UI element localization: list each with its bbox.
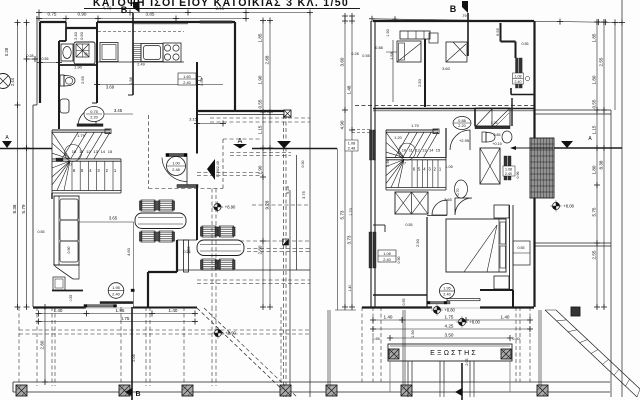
right plan: wardrobe top right — [475, 108, 510, 126]
left plan: flue niche walls — [65, 28, 67, 41]
right plan: pergola verticals below balcony — [407, 382, 409, 397]
left plan: exterior wall top kitchen segment — [97, 21, 235, 23]
left plan: dining table 1 — [135, 213, 186, 229]
svg-text:1.08: 1.08 — [348, 142, 355, 146]
right plan: bedroom2 closet east — [513, 241, 530, 265]
svg-text:9: 9 — [65, 153, 67, 157]
svg-text:2.40: 2.40 — [183, 81, 190, 85]
right plan: balcony side rails down — [389, 361, 391, 392]
svg-text:2.55: 2.55 — [592, 250, 597, 259]
svg-text:4.25: 4.25 — [445, 324, 454, 329]
svg-text:ΕΞΩΣΤΗΣ: ΕΞΩΣΤΗΣ — [430, 350, 478, 357]
left plan: right dim column 2 — [269, 21, 271, 308]
right plan: dashes left of stair — [352, 129, 371, 131]
svg-text:3.85: 3.85 — [146, 12, 155, 17]
left plan: hall west wall upper — [196, 62, 198, 154]
right plan: bedroom1 closet — [400, 31, 430, 39]
right plan: bath toilet — [482, 132, 486, 142]
svg-text:2.40: 2.40 — [443, 293, 450, 297]
svg-text:5.75: 5.75 — [592, 207, 597, 216]
right plan: bath north walls — [510, 88, 512, 95]
right plan: balcony east structures — [534, 109, 611, 111]
left plan: kitchen sink — [141, 44, 163, 62]
svg-text:2.48: 2.48 — [172, 167, 180, 172]
svg-text:0.55: 0.55 — [258, 99, 263, 108]
left plan: staircase — [51, 130, 53, 193]
left plan: entrance arrow — [207, 159, 215, 180]
svg-text:A: A — [238, 138, 243, 145]
right plan: bath west wall — [474, 108, 476, 126]
svg-text:4.70: 4.70 — [103, 6, 112, 11]
left plan: kitchen counter edge — [97, 61, 184, 63]
right plan: bedroom2 walls — [426, 217, 428, 307]
svg-text:4.60: 4.60 — [126, 247, 131, 256]
right plan: south sliding door panel 1 — [447, 299, 480, 301]
right plan: hall west wall step — [373, 224, 385, 226]
right plan: right dim column 2 — [603, 22, 605, 307]
svg-text:3.50: 3.50 — [445, 333, 454, 338]
svg-text:3.45: 3.45 — [114, 108, 123, 113]
left plan: south sliding door panel 1 — [100, 302, 133, 304]
left plan: sofa corner piece — [54, 265, 79, 279]
right plan: bedroom2 double bed — [446, 219, 506, 272]
left plan: dark step at stair mid — [56, 158, 63, 162]
svg-text:1.05: 1.05 — [445, 165, 452, 169]
svg-text:3.73: 3.73 — [347, 235, 352, 244]
svg-text:1.90: 1.90 — [258, 165, 263, 174]
svg-text:B: B — [135, 391, 140, 398]
svg-text:0.55: 0.55 — [402, 299, 406, 306]
svg-text:1.95: 1.95 — [443, 287, 450, 291]
svg-text:9: 9 — [399, 152, 401, 156]
right plan: exterior wall west — [370, 21, 372, 307]
svg-text:4.75: 4.75 — [121, 316, 130, 321]
svg-text:15: 15 — [108, 149, 113, 154]
right plan: section line B vertical top — [467, 13, 469, 56]
right plan: stair arrow — [516, 147, 553, 149]
svg-text:2.50: 2.50 — [417, 78, 422, 87]
right terrace: diagonal stair — [545, 310, 637, 397]
svg-text:1.40: 1.40 — [384, 315, 393, 320]
svg-text:2.90: 2.90 — [415, 238, 420, 247]
svg-text:1.80: 1.80 — [592, 75, 597, 84]
right plan: level mark +8.08 — [552, 202, 559, 209]
svg-text:2.96: 2.96 — [386, 159, 390, 166]
right plan: bedroom1 SE closet walls — [500, 23, 502, 42]
right plan: west window bars — [370, 130, 373, 160]
svg-text:13: 13 — [93, 149, 98, 154]
svg-text:9.28: 9.28 — [265, 200, 270, 209]
svg-text:2.55: 2.55 — [80, 75, 85, 84]
title underline — [84, 8, 360, 10]
svg-text:5.73: 5.73 — [340, 210, 345, 219]
right plan: pergola verticals — [407, 361, 409, 382]
svg-text:B: B — [121, 5, 128, 15]
svg-text:0.85: 0.85 — [494, 133, 501, 137]
right plan: south sliding door panel 2 — [427, 302, 450, 304]
right plan: bedroom1 bed A — [397, 41, 421, 62]
svg-text:1.00: 1.00 — [172, 161, 180, 166]
right plan: bedroom2 label circle — [440, 284, 455, 299]
left plan: living door label circle — [167, 157, 186, 176]
svg-text:Π.20/2.40: Π.20/2.40 — [216, 161, 220, 177]
svg-text:1.15: 1.15 — [592, 125, 597, 134]
svg-text:1.08: 1.08 — [515, 75, 522, 79]
svg-text:12: 12 — [415, 148, 420, 153]
svg-text:+8.08: +8.08 — [563, 204, 574, 209]
left plan: section B line bottom — [131, 307, 133, 400]
svg-text:1.80: 1.80 — [592, 165, 597, 174]
left plan: right dim column 1 — [262, 21, 264, 308]
right terrace: verticals — [327, 310, 329, 385]
svg-text:14: 14 — [429, 148, 434, 153]
right plan: hall south wall — [373, 294, 427, 296]
left plan: bathroom washbasin — [61, 44, 73, 61]
right plan: bedroom2 inner east wall — [509, 205, 511, 290]
svg-text:1.50: 1.50 — [411, 330, 415, 337]
left plan: dining set 1 chairs top — [141, 200, 155, 211]
right plan: outer east line — [621, 0, 623, 397]
right plan: bedroom2 SE wall jog — [480, 289, 513, 291]
left plan: lower west cupboard — [53, 277, 65, 290]
right terrace: top column — [571, 307, 580, 316]
svg-text:0.55: 0.55 — [42, 57, 49, 61]
svg-text:2.55: 2.55 — [216, 6, 225, 11]
right plan: stair east wall upper — [445, 128, 447, 158]
left plan: left dimension line 5.79 — [26, 23, 28, 308]
svg-text:1.90: 1.90 — [258, 75, 263, 84]
svg-text:6.55: 6.55 — [495, 27, 500, 36]
left plan: kitchen wall cabinets dashed — [98, 31, 184, 33]
right terrace: dashed verticals — [361, 307, 363, 382]
left plan: east wall — [234, 22, 236, 112]
svg-text:10: 10 — [402, 148, 407, 153]
svg-text:1.95: 1.95 — [116, 308, 125, 313]
svg-text:0.55: 0.55 — [406, 223, 413, 227]
right plan: east wall — [533, 21, 535, 307]
left plan: top dimension row 1 (4.70 / 2.55) — [39, 12, 310, 14]
svg-text:4.90: 4.90 — [340, 120, 345, 129]
right plan: south wall — [362, 306, 432, 308]
svg-text:2.60: 2.60 — [40, 340, 45, 349]
left plan: pier next to entrance — [184, 240, 189, 272]
svg-text:1.48: 1.48 — [347, 85, 352, 94]
svg-text:.79: .79 — [461, 14, 466, 18]
svg-text:0.30: 0.30 — [301, 161, 305, 168]
left plan: dining table 2 — [197, 240, 244, 256]
svg-text:1.95: 1.95 — [112, 285, 120, 290]
left plan: porch dashed verticals down — [211, 189, 213, 308]
right plan: right dim column 1 — [596, 22, 598, 307]
right plan: balcony outline — [388, 344, 512, 361]
column symbol at left edge — [0, 74, 11, 89]
left plan: window label box — [178, 73, 196, 85]
svg-text:1.90: 1.90 — [74, 65, 83, 70]
right plan: exterior wall top — [373, 20, 534, 22]
svg-text:2.68: 2.68 — [265, 55, 270, 64]
right plan: door arc below stairs — [455, 198, 472, 215]
svg-text:1.58: 1.58 — [389, 51, 394, 60]
left plan: wc toilet — [60, 75, 64, 86]
svg-text:8.38: 8.38 — [12, 204, 17, 213]
left plan: living room label circle — [108, 283, 124, 299]
svg-text:2.40: 2.40 — [515, 80, 522, 84]
svg-text:2.55: 2.55 — [599, 57, 604, 66]
svg-text:B: B — [450, 4, 457, 14]
right plan: bedroom1 east partition line — [392, 40, 394, 102]
svg-text:2.20: 2.20 — [90, 115, 98, 120]
svg-text:1.20: 1.20 — [394, 136, 401, 140]
right plan: balcony dim rows — [373, 319, 530, 321]
svg-text:3.15: 3.15 — [189, 117, 198, 122]
right plan: floor divider dashed — [355, 105, 534, 107]
svg-text:7: 7 — [404, 162, 406, 166]
left plan: kitchen drainboard hatch — [133, 44, 141, 62]
svg-text:1.08: 1.08 — [505, 168, 512, 172]
svg-text:1.75: 1.75 — [445, 315, 454, 320]
right plan: balcony corner columns — [389, 349, 399, 359]
svg-text:0.28: 0.28 — [351, 52, 358, 56]
svg-text:1.70: 1.70 — [349, 208, 353, 215]
right plan: left dim line top ticks — [344, 16, 346, 21]
right terrace: level mark +8.00 — [458, 318, 465, 325]
svg-text:0.55: 0.55 — [38, 230, 45, 234]
right plan: bedroom2 door arc — [432, 200, 447, 215]
left plan: section A-A mid segment — [252, 148, 337, 150]
left plan: living west wall below stairs — [51, 193, 53, 199]
left plan: bath west wall — [58, 41, 60, 129]
left plan: living door swing arc — [162, 158, 187, 182]
left plan: bathroom shower box — [74, 42, 95, 64]
left plan: dim edge right of door — [133, 289, 135, 307]
left plan: entrance porch dashed outline — [148, 115, 150, 189]
left plan: chimney bay wall — [65, 22, 67, 28]
right plan: door arc top right of stairs — [450, 130, 470, 150]
section A-A right segment — [554, 147, 622, 149]
left plan: living door jamb bottom — [177, 185, 198, 188]
svg-text:0.55: 0.55 — [592, 99, 597, 108]
left plan: dining set 2 chairs top — [202, 226, 216, 237]
svg-text:2.05: 2.05 — [465, 358, 469, 365]
left plan: wc door label — [84, 107, 104, 122]
left plan: veranda east inner edge — [296, 155, 298, 270]
section A-A marker left — [2, 141, 12, 148]
left plan: roofline dashed verticals — [283, 115, 285, 397]
left terrace: dashed horizontals — [19, 329, 310, 331]
right plan: interior door bars — [516, 58, 519, 88]
right plan: balcony level mark — [433, 306, 440, 313]
svg-text:8.38: 8.38 — [599, 160, 604, 169]
svg-text:0.28: 0.28 — [27, 54, 34, 58]
svg-text:13: 13 — [422, 148, 427, 153]
svg-text:1.70: 1.70 — [411, 123, 420, 128]
svg-text:2.48: 2.48 — [348, 147, 355, 151]
left plan: living SE corner walls — [176, 240, 178, 272]
svg-text:0.55: 0.55 — [518, 246, 525, 250]
right plan: interior door label — [513, 73, 524, 84]
left plan: veranda east edge — [289, 190, 291, 397]
svg-text:0.90: 0.90 — [397, 257, 401, 264]
left plan: wc sink — [60, 99, 69, 113]
svg-text:14: 14 — [101, 149, 106, 154]
left plan: interior wall kitchen/bath — [96, 22, 98, 103]
svg-text:+2.95: +2.95 — [459, 138, 470, 143]
svg-text:3.75: 3.75 — [301, 190, 306, 199]
right plan: bath fixtures — [480, 148, 500, 184]
left plan: veranda column — [284, 110, 291, 117]
svg-text:0.90: 0.90 — [78, 12, 87, 17]
left terrace: level marker +8.90 — [214, 329, 221, 336]
svg-text:1.60: 1.60 — [183, 75, 190, 79]
svg-text:3.60: 3.60 — [340, 57, 345, 66]
svg-text:2.40: 2.40 — [112, 292, 120, 297]
right plan: west window labels — [345, 140, 358, 151]
svg-text:3.60: 3.60 — [442, 66, 451, 71]
svg-text:1.40: 1.40 — [348, 285, 352, 292]
right plan: closet below stairs — [395, 192, 428, 214]
svg-text:1.85: 1.85 — [592, 33, 597, 42]
svg-text:2.40: 2.40 — [505, 172, 512, 176]
svg-text:1.25: 1.25 — [491, 121, 498, 125]
svg-text:1.08: 1.08 — [383, 252, 390, 256]
left plan: sofa — [54, 196, 79, 265]
svg-text:0.28: 0.28 — [4, 47, 9, 56]
svg-text:0.90: 0.90 — [79, 31, 84, 40]
svg-text:7: 7 — [70, 163, 72, 167]
svg-text:0.55: 0.55 — [187, 247, 191, 254]
right plan: section B line bottom — [461, 363, 463, 400]
left plan: outer boundary line west — [36, 16, 38, 105]
right plan: top dimension line — [372, 19, 622, 23]
svg-text:1.90: 1.90 — [386, 29, 390, 36]
svg-text:0.55: 0.55 — [362, 54, 369, 58]
right plan: bath sink — [502, 131, 512, 143]
section A-A line left segment — [0, 148, 52, 150]
left plan: top window dark bar — [200, 21, 232, 23]
svg-text:+8.90: +8.90 — [225, 205, 236, 210]
svg-text:1.40: 1.40 — [169, 308, 178, 313]
left plan: half-filled column marker — [283, 239, 289, 245]
svg-text:+8.90: +8.90 — [225, 331, 236, 336]
left terrace: columns — [16, 385, 27, 396]
svg-text:0.88: 0.88 — [375, 46, 382, 50]
svg-text:0.55: 0.55 — [69, 295, 73, 302]
svg-text:1.40: 1.40 — [501, 315, 510, 320]
left terrace: diagonal dashed — [197, 308, 290, 397]
left plan: southeast wall of hall — [197, 110, 284, 112]
svg-text:12: 12 — [86, 149, 91, 154]
left plan: bath/wc divider wall — [59, 64, 97, 66]
left plan: veranda dashed horizontals south — [230, 152, 291, 154]
right plan: bedroom1 bed B — [446, 42, 467, 62]
left plan: kitchen stove — [163, 43, 181, 62]
svg-text:3.69: 3.69 — [106, 85, 115, 90]
svg-text:2.05: 2.05 — [131, 353, 136, 362]
left plan: veranda south edge — [177, 269, 310, 271]
svg-text:15: 15 — [436, 148, 441, 153]
left plan: living door jamb top — [166, 154, 187, 157]
left plan: top dimension row 2 (0.75 / 0.90 / 3.85) — [39, 18, 246, 20]
left plan: dining set 1 chairs bottom — [141, 231, 155, 242]
left plan: wc door arc — [78, 108, 96, 126]
left plan: south wall — [33, 306, 86, 308]
svg-text:+0.15: +0.15 — [492, 142, 501, 146]
left plan: living level mark — [214, 203, 221, 210]
left plan: exterior wall top — [40, 21, 66, 23]
left plan: lower west wall ledge — [52, 290, 83, 292]
left terrace: dashed verticals — [18, 307, 20, 386]
right plan: staircase — [385, 130, 387, 190]
right plan: dim line x615 — [614, 22, 616, 110]
right plan: interior wall bedroom1 — [424, 39, 426, 107]
svg-text:0.55: 0.55 — [522, 42, 529, 46]
left plan: living door leaf — [186, 157, 188, 185]
svg-text:0.75: 0.75 — [90, 109, 98, 114]
svg-text:0.65: 0.65 — [372, 337, 379, 341]
left plan: vertical dim 2.60 — [44, 307, 46, 382]
svg-text:1.79: 1.79 — [77, 133, 86, 138]
left plan: door sill bar at stair — [77, 124, 103, 127]
left plan: south sliding door panel 2 — [84, 305, 117, 307]
svg-text:10: 10 — [72, 149, 77, 154]
svg-text:1.85: 1.85 — [258, 33, 263, 42]
left plan: kitchen dishwasher — [100, 43, 118, 62]
svg-text:2.40: 2.40 — [73, 31, 78, 40]
left plan: bottom dim row 1 — [39, 313, 196, 315]
left plan: hall west wall lower — [196, 185, 198, 241]
svg-text:0.75: 0.75 — [48, 12, 57, 17]
right plan: bath east partition — [511, 98, 513, 126]
svg-text:2.40: 2.40 — [383, 258, 390, 262]
right plan: bath door bars — [504, 156, 507, 180]
right terrace: columns — [326, 385, 337, 396]
left plan: left dimension line 8.38 — [17, 23, 19, 308]
svg-text:0.90: 0.90 — [200, 78, 204, 85]
left plan: dining set 2 chairs bottom — [202, 259, 216, 270]
left plan: veranda dashed horizontals mid — [252, 204, 310, 206]
gap: right plan west outer dim line — [337, 149, 339, 311]
svg-text:3.65: 3.65 — [109, 216, 118, 221]
left plan: bottom dim row 2 — [39, 321, 196, 323]
right plan: bedroom2 nightstands — [494, 205, 509, 218]
svg-text:0.70: 0.70 — [456, 189, 460, 196]
svg-text:0.90: 0.90 — [67, 247, 71, 254]
svg-text:+8.00: +8.00 — [469, 320, 480, 325]
left plan: outer east line — [309, 14, 311, 398]
right plan: hall/bath divider — [373, 108, 534, 110]
svg-text:0.96: 0.96 — [516, 172, 520, 179]
left plan: section line B vertical top — [132, 13, 134, 95]
svg-text:1.15: 1.15 — [258, 125, 263, 134]
svg-text:2.80: 2.80 — [258, 245, 263, 254]
left plan: exterior wall west — [39, 22, 41, 103]
left plan: dim 4.60 vertical — [133, 222, 135, 289]
right plan: exterior stair hatch — [530, 138, 554, 198]
svg-text:0.88: 0.88 — [458, 119, 465, 123]
svg-text:5.79: 5.79 — [21, 204, 26, 213]
right plan: left dim lines — [344, 16, 346, 307]
terrace: long south lines — [13, 381, 610, 383]
left plan: veranda edge dashes — [210, 117, 310, 119]
svg-text:1.58: 1.58 — [129, 77, 133, 84]
svg-text:+8.80: +8.80 — [444, 308, 455, 313]
right plan: nightstand — [429, 33, 438, 43]
svg-text:2.49: 2.49 — [137, 63, 144, 67]
svg-text:2.20: 2.20 — [458, 124, 465, 128]
